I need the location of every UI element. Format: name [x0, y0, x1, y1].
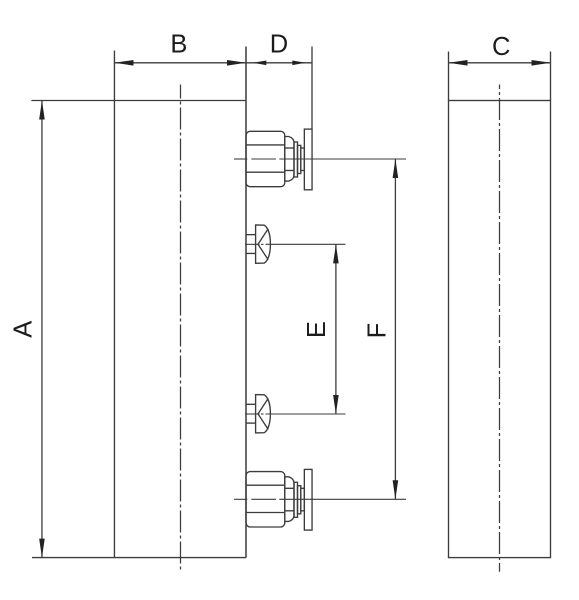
- top screw: [246, 225, 270, 263]
- step 2: [298, 145, 301, 173]
- dimension D: [246, 47, 312, 130]
- left body top edge: [31, 100, 246, 102]
- dimension A: [39, 101, 45, 558]
- top fitting: [246, 129, 312, 190]
- top fitting centerline: [234, 158, 406, 160]
- left body left edge: [113, 51, 115, 558]
- left body bottom edge: [32, 557, 246, 559]
- left body centerline: [180, 85, 182, 572]
- step 3: [301, 148, 305, 171]
- right body left extension: [448, 52, 450, 101]
- bottom screw: [246, 395, 270, 433]
- dimension E: [333, 244, 339, 414]
- bottom screw centerline: [245, 413, 346, 415]
- right body outline: [449, 101, 551, 558]
- dimension B: [114, 60, 246, 66]
- dimension F: [393, 159, 399, 499]
- bottom fitting: [246, 469, 312, 530]
- flange: [304, 129, 312, 190]
- svg-text:C: C: [492, 33, 510, 61]
- step 1: [294, 142, 298, 177]
- step 1: [294, 482, 298, 517]
- dimension C: [449, 60, 551, 66]
- cap: [285, 137, 294, 182]
- cap: [285, 477, 294, 522]
- top screw centerline: [245, 243, 346, 245]
- nut: [246, 131, 285, 186]
- svg-text:E: E: [303, 321, 331, 338]
- svg-text:B: B: [170, 31, 187, 59]
- svg-text:F: F: [364, 323, 392, 339]
- svg-text:D: D: [270, 31, 288, 59]
- step 2: [298, 486, 301, 514]
- svg-text:A: A: [9, 321, 37, 338]
- step 3: [301, 488, 305, 511]
- flange: [304, 469, 312, 530]
- right body centerline: [499, 85, 501, 572]
- right body right extension: [550, 52, 552, 101]
- nut: [246, 472, 285, 527]
- left body right edge: [245, 47, 247, 558]
- bottom fitting centerline: [234, 498, 406, 500]
